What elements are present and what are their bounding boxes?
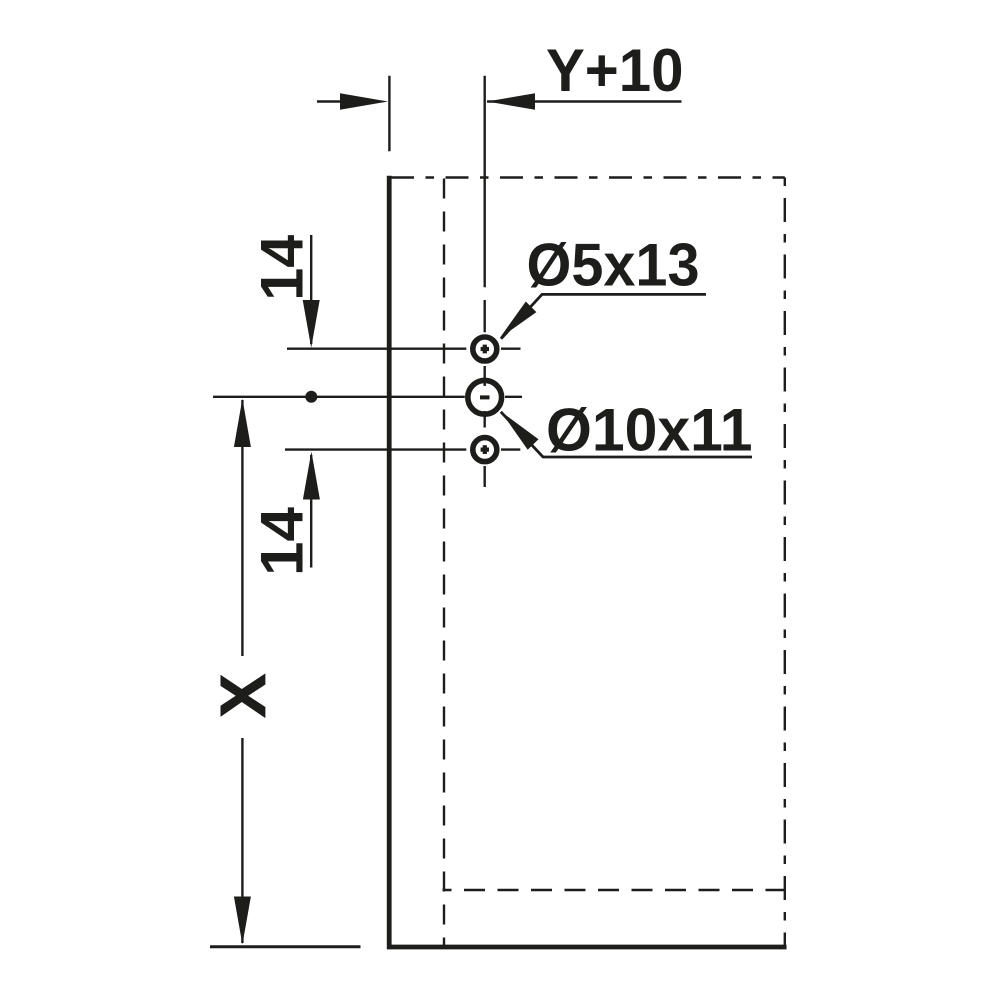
svg-text:14: 14 (249, 234, 316, 301)
svg-text:Ø10x11: Ø10x11 (546, 396, 753, 463)
svg-text:X: X (207, 673, 279, 718)
svg-text:14: 14 (249, 506, 316, 576)
svg-text:Y+10: Y+10 (546, 37, 684, 104)
svg-text:Ø5x13: Ø5x13 (527, 231, 700, 298)
